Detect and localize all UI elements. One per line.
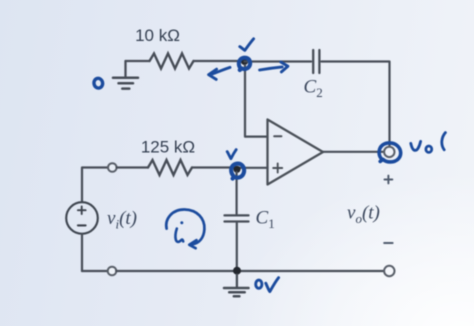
- bottom rail left segment: [82, 270, 108, 272]
- wire node B down to C1: [236, 172, 238, 214]
- ink vo( annotation: [411, 133, 446, 153]
- wire terminal to R2: [117, 166, 148, 168]
- wire C1 down to bottom node: [236, 223, 238, 267]
- ink check above node B: [227, 150, 236, 159]
- ink small o near top-left ground: [93, 78, 103, 89]
- left branch: wire corner to input terminal: [82, 168, 108, 203]
- svg-text:125 kΩ: 125 kΩ: [141, 137, 195, 156]
- wire node A down to inverting input: [245, 65, 268, 137]
- wire node B to non-inverting input: [237, 167, 268, 169]
- op-amp minus pin mark: [274, 135, 281, 137]
- label + (vo polarity): [385, 176, 393, 184]
- ink circle around node B: [231, 164, 244, 179]
- input terminal open circle on 125k wire: [108, 163, 117, 172]
- ink check above node A: [240, 39, 254, 51]
- wire C2 to top-right corner and down to output: [322, 62, 390, 147]
- plus mark in source: [78, 206, 86, 214]
- capacitor C1: [225, 215, 249, 221]
- svg-text:C1: C1: [256, 208, 275, 232]
- ground (bottom): [224, 275, 249, 297]
- wire source down to bottom rail: [81, 234, 83, 271]
- ink arrow left of node A: [209, 67, 230, 79]
- resistor R1 10 kOhm: [150, 54, 194, 69]
- svg-text:10 kΩ: 10 kΩ: [135, 26, 180, 45]
- ink circle around node A: [239, 58, 250, 70]
- ink current loop i: [166, 209, 204, 248]
- svg-text:vo(t): vo(t): [347, 203, 380, 227]
- wire node A to C2: [245, 60, 312, 62]
- resistor R2 125 kOhm: [148, 160, 192, 175]
- bottom-right terminal open circle: [384, 266, 394, 276]
- svg-text:vi(t): vi(t): [107, 208, 137, 232]
- wire ground to R1: [126, 60, 150, 62]
- wire op-amp output to terminal: [323, 151, 384, 153]
- ground (top-left, at 10k resistor input): [113, 61, 138, 89]
- wire R2 to node B: [192, 166, 237, 168]
- bottom rail to right terminal: [116, 270, 384, 272]
- ink letter i: [175, 221, 183, 242]
- ink 0v annotation at bottom ground: [256, 278, 279, 292]
- voltage source Vi: [66, 202, 98, 234]
- output terminal (open circle): [384, 147, 394, 157]
- capacitor C2: [313, 50, 319, 73]
- label - (vo polarity): [384, 242, 392, 244]
- bottom-left terminal open circle: [108, 267, 117, 276]
- ink circle around output terminal: [379, 143, 401, 162]
- ink arrow right of node A: [260, 62, 288, 72]
- bottom node (junction dot): [233, 267, 241, 275]
- op-amp plus pin mark: [273, 164, 282, 173]
- svg-text:C2: C2: [304, 77, 323, 101]
- wire R1 to node A: [194, 60, 245, 62]
- op-amp U1: [268, 120, 324, 185]
- node A (junction dot): [241, 58, 248, 65]
- minus mark in source: [78, 224, 86, 226]
- node B (junction dot): [233, 166, 240, 173]
